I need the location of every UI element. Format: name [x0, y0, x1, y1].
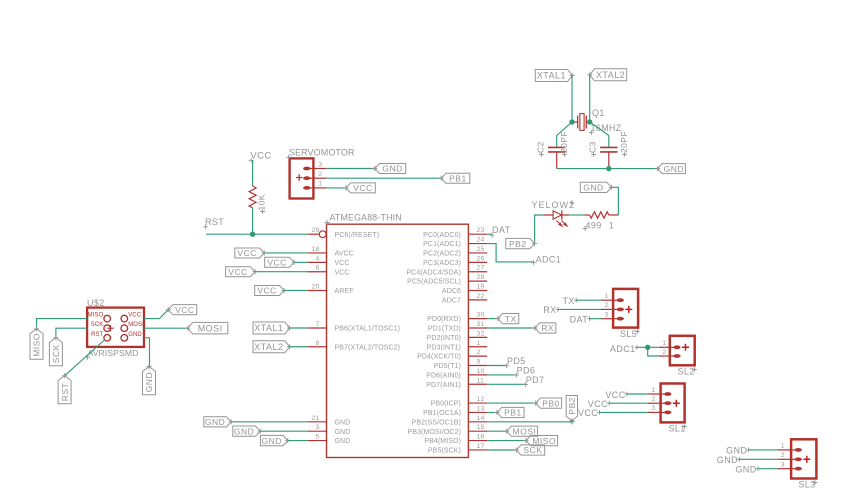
svg-text:PB4(MISO): PB4(MISO) [424, 438, 461, 445]
svg-text:RX: RX [541, 323, 554, 333]
svg-text:4: 4 [316, 255, 320, 262]
svg-text:19: 19 [477, 283, 485, 290]
SERVOMOTOR pin 1 [303, 181, 326, 190]
wire servo pin 3 to GND flag [326, 168, 374, 170]
svg-text:3: 3 [605, 312, 609, 319]
svg-text:PC3(ADC3): PC3(ADC3) [423, 260, 461, 267]
svg-text:25: 25 [477, 246, 485, 253]
svg-text:12: 12 [477, 396, 485, 403]
U1 name label ATMEGA88-THIN [324, 213, 401, 226]
SL1 pin 3 [648, 405, 672, 414]
flag SCK vertical [49, 338, 62, 366]
wire pin14 to PB2 vertical flag [487, 421, 572, 423]
svg-text:PB0: PB0 [542, 398, 560, 408]
label R1 value 499 [583, 220, 602, 231]
LED YELOW2 [544, 210, 569, 226]
wire GND to SL3 pin2 [739, 458, 777, 460]
U1 pin 11 PD7(AIN1) [426, 377, 487, 389]
svg-text:SL3: SL3 [799, 480, 816, 490]
U1 pin 29 PC6(/RESET) [308, 227, 379, 239]
svg-text:XTAL1: XTAL1 [537, 71, 566, 81]
svg-text:VCC: VCC [353, 183, 372, 193]
SERVOMOTOR pin 2 [303, 171, 326, 180]
svg-text:PD2(INT0): PD2(INT0) [427, 335, 461, 342]
wire pin16 to MISO flag [487, 440, 526, 442]
svg-text:PC5(ADC5/SCL): PC5(ADC5/SCL) [407, 279, 461, 286]
svg-text:U$2: U$2 [87, 298, 105, 308]
svg-text:GND: GND [335, 429, 351, 436]
svg-text:GND: GND [382, 164, 402, 174]
wire VCC to SL1 pin3 [600, 411, 648, 413]
svg-text:16MHZ: 16MHZ [591, 123, 622, 133]
wire U$2 MOSI to flag [144, 327, 188, 329]
connector SL3 body [791, 439, 816, 478]
wire XTAL2 flag to pin8 [290, 346, 308, 348]
label PD6 net [514, 366, 535, 378]
svg-text:PD6(AIN0): PD6(AIN0) [426, 373, 461, 380]
U1 pin 2 PD4(XCK/T0) [417, 349, 487, 361]
label GND net sl3 pin3 [735, 465, 760, 475]
SL3 pin 1 [777, 443, 802, 452]
svg-text:VCC: VCC [257, 286, 276, 296]
svg-text:AVRISPSMD: AVRISPSMD [88, 348, 139, 358]
flag PB1 [497, 407, 524, 417]
svg-text:14: 14 [477, 415, 485, 422]
svg-text:PB1: PB1 [449, 173, 467, 183]
SL5 pin 2 [601, 302, 624, 311]
svg-text:VCC: VCC [175, 305, 194, 315]
label C3 [588, 141, 598, 156]
flag MOSI [507, 426, 538, 436]
SERVOMOTOR pin 3 [303, 161, 326, 170]
flag GND vertical avrisp [143, 367, 156, 395]
label VCC net sl1 pin1 [605, 390, 629, 400]
wire ADC1 branch to SL2 pin2 [648, 347, 659, 356]
SL5 pin 1 [601, 293, 624, 302]
wire pin31 to RX flag [487, 327, 535, 329]
flag XTAL2 pin8 [253, 341, 290, 353]
svg-text:PB2: PB2 [567, 397, 577, 415]
svg-text:29: 29 [312, 227, 320, 234]
flag PB2 led [506, 238, 535, 248]
node ADC1 junction [645, 345, 650, 350]
U1 pin 27 PC4(ADC4/SDA) [406, 265, 487, 277]
svg-text:GND: GND [583, 183, 603, 193]
U1 pin 6 VCC [308, 265, 350, 277]
svg-text:MOSI: MOSI [128, 322, 144, 328]
svg-text:SL1: SL1 [669, 424, 686, 434]
svg-text:RX: RX [543, 305, 556, 315]
label YELOW2 [532, 200, 576, 210]
svg-text:VCC: VCC [578, 408, 598, 418]
svg-text:VCC: VCC [605, 390, 625, 400]
U$2 pad pair MISO/VCC [88, 313, 142, 322]
svg-text:GND: GND [335, 438, 351, 445]
U$2 pad pair SCK/MOSI [91, 322, 144, 331]
svg-text:20PF: 20PF [559, 131, 569, 153]
wire pin30 to TX flag [487, 318, 498, 320]
U1 pin 23 PC0(ADC0) [423, 227, 487, 239]
svg-text:VCC: VCC [228, 267, 247, 277]
svg-text:8: 8 [316, 340, 320, 347]
svg-text:21: 21 [312, 415, 320, 422]
svg-text:PC0(ADC0): PC0(ADC0) [423, 232, 461, 239]
U1 pin 30 PD0(RXD) [427, 312, 487, 324]
wire pin12 to PB0 flag [487, 402, 535, 404]
flag PB0 [536, 398, 562, 408]
svg-text:ADC1: ADC1 [536, 254, 562, 264]
svg-text:PC1(ADC1): PC1(ADC1) [423, 241, 461, 248]
wire U$2 GND to flag [144, 338, 150, 367]
wire pin11 PD7 net [487, 383, 525, 385]
U1 pin 22 ADC7 [442, 293, 487, 305]
svg-text:GND: GND [664, 164, 684, 174]
svg-text:YELOW2: YELOW2 [532, 200, 576, 210]
flag VCC servo [346, 183, 375, 193]
svg-text:2: 2 [477, 349, 481, 356]
label RST net [203, 217, 224, 229]
wire pin24 to ADC1 [487, 244, 533, 262]
label GND net sl3 pin2 [717, 455, 742, 465]
resistor 10K pull-up [249, 186, 256, 208]
wire U$2 VCC to flag [144, 310, 168, 319]
U1 pin 21 GND [308, 415, 351, 427]
resistor value 10K [257, 194, 267, 214]
wire servo pin 1 to VCC flag [326, 187, 346, 189]
svg-text:ATMEGA88-THIN: ATMEGA88-THIN [330, 213, 402, 223]
svg-text:1: 1 [605, 293, 609, 300]
svg-text:PD0(RXD): PD0(RXD) [427, 316, 461, 323]
svg-text:MISO: MISO [88, 313, 104, 319]
resistor R1 499 [585, 212, 619, 218]
svg-text:XTAL2: XTAL2 [254, 342, 283, 352]
svg-text:TX: TX [505, 314, 517, 324]
label 16MHZ value [589, 123, 622, 135]
svg-text:RST: RST [60, 383, 70, 402]
wire pin15 to MOSI flag [487, 430, 506, 432]
svg-text:22: 22 [477, 293, 485, 300]
label SL5 [620, 329, 640, 339]
svg-text:16: 16 [477, 434, 485, 441]
U1 pin 16 PB4(MISO) [424, 434, 487, 446]
label TX net sl5 [562, 296, 578, 306]
wire servo pin 2 to PB1 flag [326, 177, 441, 179]
connector U$2 AVRISPSMD body [87, 308, 144, 347]
svg-text:SERVOMOTOR: SERVOMOTOR [289, 147, 355, 157]
svg-text:20: 20 [312, 283, 320, 290]
svg-text:SL2: SL2 [678, 367, 695, 377]
svg-text:ADC1: ADC1 [610, 344, 636, 354]
connector SERVOMOTOR body [290, 158, 314, 198]
svg-text:RST: RST [205, 217, 224, 227]
svg-text:PB0(ICP): PB0(ICP) [431, 401, 461, 408]
svg-text:PC4(ADC4/SDA): PC4(ADC4/SDA) [406, 269, 461, 276]
svg-text:18: 18 [312, 246, 320, 253]
label C2 [536, 141, 546, 156]
svg-text:C2: C2 [536, 141, 546, 153]
svg-text:AREF: AREF [335, 288, 354, 295]
svg-text:PD1(TXD): PD1(TXD) [428, 326, 461, 333]
crystal Q1 [572, 114, 590, 131]
svg-text:RST: RST [91, 332, 104, 338]
label SL3 [799, 480, 818, 490]
U1 pin 8 PB7(XTAL2/TOSC2) [308, 340, 400, 352]
svg-text:PB2(SS/OC1B): PB2(SS/OC1B) [412, 419, 461, 426]
svg-text:SCK: SCK [51, 344, 61, 363]
svg-text:20PF: 20PF [619, 131, 629, 153]
wire VCC flag to pin4 [294, 261, 308, 263]
label PD7 net [523, 375, 544, 387]
svg-text:27: 27 [477, 265, 485, 272]
wire resistor to RST node [252, 208, 254, 234]
wire led to resistor [569, 214, 584, 216]
svg-text:32: 32 [477, 330, 485, 337]
svg-text:3: 3 [651, 405, 655, 412]
op-amp U1 ATMEGA88-THIN body [327, 224, 469, 457]
flag MOSI avrisp [188, 322, 228, 334]
connector SL2 body [670, 336, 695, 366]
SL5 pin 3 [601, 312, 624, 321]
svg-text:VCC: VCC [267, 258, 286, 268]
label AVRISPSMD [85, 348, 138, 360]
svg-text:24: 24 [477, 237, 485, 244]
flag RX [535, 323, 556, 333]
U1 pin 4 VCC [308, 255, 350, 267]
svg-text:30: 30 [477, 312, 485, 319]
wire RX to SL5 pin2 [558, 308, 601, 310]
svg-text:5: 5 [316, 434, 320, 441]
capacitor C2 [548, 147, 565, 168]
svg-text:1: 1 [318, 181, 322, 188]
label DAT net [490, 225, 511, 238]
svg-text:1: 1 [651, 387, 655, 394]
wire VCC flag to pin6 [255, 271, 308, 273]
wire XTAL2 down to crystal [589, 75, 591, 122]
label RX net sl5 [543, 305, 560, 315]
flag XTAL2 crystal [590, 69, 627, 81]
flag GND pin5 [260, 435, 287, 445]
svg-text:ADC7: ADC7 [442, 297, 461, 304]
svg-text:PD3(INT1): PD3(INT1) [427, 344, 461, 351]
U$2 pad pair RST/GND [91, 332, 142, 341]
wire XTAL1 down to crystal [571, 76, 573, 123]
flag GND led resistor [580, 182, 611, 192]
svg-text:VCC: VCC [237, 248, 256, 258]
svg-text:1: 1 [477, 340, 481, 347]
wire pin23 DAT stub [487, 233, 492, 235]
U1 pin 14 PB2(SS/OC1B) [412, 415, 488, 427]
U1 pin 31 PD1(TXD) [428, 321, 487, 333]
svg-text:PD7(AIN1): PD7(AIN1) [426, 382, 461, 389]
svg-text:GND: GND [234, 426, 254, 436]
SL2 pin 2 [659, 349, 681, 358]
tick pin14 wire end [569, 419, 574, 424]
label SL2 [678, 367, 697, 377]
svg-text:31: 31 [477, 321, 485, 328]
flag GND pin21 [204, 417, 231, 427]
wire ADC1 to SL2 pin1 [637, 346, 659, 348]
svg-text:26: 26 [477, 255, 485, 262]
U1 pin 10 PD6(AIN0) [426, 368, 487, 380]
svg-text:GND: GND [735, 465, 756, 475]
wire GND flag to resistor [612, 187, 619, 215]
svg-text:GND: GND [205, 417, 225, 427]
svg-text:GND: GND [144, 372, 154, 392]
flag XTAL1 crystal [535, 70, 572, 82]
power VCC supply above R 10K [249, 151, 272, 163]
wire VCC to SL1 pin1 [627, 393, 648, 395]
wire crystal left to C2 [557, 122, 572, 147]
label SERVOMOTOR [286, 147, 355, 160]
SL1 pin 2 [648, 396, 672, 405]
svg-text:17: 17 [477, 443, 485, 450]
wire GND flag to pin5 [288, 440, 308, 442]
svg-text:PD7: PD7 [526, 375, 545, 385]
wire pin10 PD6 net [487, 374, 516, 376]
svg-text:GND: GND [262, 436, 282, 446]
svg-text:499: 499 [586, 220, 602, 230]
svg-text:PC6(/RESET): PC6(/RESET) [335, 232, 380, 239]
svg-text:C3: C3 [588, 141, 598, 153]
svg-text:SCK: SCK [91, 322, 104, 328]
svg-text:1: 1 [609, 220, 614, 230]
svg-text:PB3(MOSI/OC2): PB3(MOSI/OC2) [408, 429, 461, 436]
svg-text:TX: TX [562, 296, 574, 306]
U1 pin 28 PC5(ADC5/SCL) [407, 274, 487, 286]
SL3 pin 3 [777, 462, 802, 471]
wire GND to SL3 pin1 [749, 449, 778, 451]
svg-text:PB5(SCK): PB5(SCK) [428, 448, 461, 455]
flag MISO [526, 436, 558, 446]
svg-text:3: 3 [316, 424, 320, 431]
U1 pin 26 PC3(ADC3) [423, 255, 487, 267]
label PD5 net [504, 356, 525, 368]
svg-text:PC2(ADC2): PC2(ADC2) [423, 251, 461, 258]
flag VCC pin18 [235, 248, 264, 258]
svg-text:10: 10 [477, 368, 485, 375]
flag VCC avrisp [168, 305, 197, 315]
U1 pin 9 PD5(T1) [434, 359, 487, 371]
U1 pin 15 PB3(MOSI/OC2) [408, 424, 488, 436]
svg-text:PB1(OC1A): PB1(OC1A) [423, 410, 461, 417]
U1 pin 25 PC2(ADC2) [423, 246, 487, 258]
connector SL5 body [613, 289, 638, 328]
node crystal left junction [569, 119, 574, 124]
svg-text:VCC: VCC [128, 313, 142, 319]
node RST junction [250, 232, 255, 237]
svg-text:PD4(XCK/T0): PD4(XCK/T0) [417, 354, 461, 361]
svg-text:23: 23 [477, 227, 485, 234]
SL2 pin 1 [659, 340, 681, 349]
wire GND flag to pin3 [260, 430, 308, 432]
svg-text:PB2: PB2 [509, 239, 527, 249]
flag VCC pin4 [265, 257, 295, 267]
wire TX to SL5 pin1 [576, 299, 601, 301]
svg-text:PD5(T1): PD5(T1) [434, 363, 461, 370]
U1 pin 12 PB0(ICP) [431, 396, 488, 408]
label SL1 [669, 424, 687, 434]
connector SL1 body [661, 384, 685, 423]
flag VCC pin6 [226, 267, 256, 277]
flag GND servo [375, 164, 406, 174]
wire pin17 to SCK flag [487, 449, 516, 451]
wire VCC flag to pin18 [264, 252, 307, 254]
U1 pin 19 ADC6 [442, 283, 487, 295]
svg-text:SCK: SCK [523, 445, 542, 455]
flag SCK [516, 445, 544, 455]
wire pin9 PD5 net [487, 365, 507, 367]
flag TX [498, 314, 519, 324]
label GND net sl3 pin1 [726, 446, 751, 456]
flag MISO vertical [30, 329, 43, 360]
svg-text:ADC6: ADC6 [442, 288, 461, 295]
svg-text:15: 15 [477, 424, 485, 431]
wire GND flag to pin21 [231, 421, 308, 423]
svg-text:1: 1 [662, 340, 666, 347]
U1 pin 5 GND [308, 434, 351, 446]
flag PB2 vertical [566, 396, 577, 424]
flag RST vertical [58, 376, 71, 404]
SL3 pin 2 [777, 452, 802, 461]
svg-text:Q1: Q1 [592, 108, 605, 118]
svg-text:6: 6 [316, 265, 320, 272]
svg-text:XTAL1: XTAL1 [254, 323, 283, 333]
label C2 value 20PF [559, 131, 569, 157]
label DAT net sl5 [570, 315, 592, 325]
node crystal right junction [587, 119, 592, 124]
U1 pin 20 AREF [308, 283, 354, 295]
svg-text:7: 7 [316, 321, 320, 328]
svg-text:PB1: PB1 [504, 408, 522, 418]
flag GND crystal [657, 164, 685, 174]
label ADC1 net sl2 [610, 344, 639, 354]
svg-text:1: 1 [781, 443, 785, 450]
svg-text:VCC: VCC [335, 269, 350, 276]
U1 pin 1 PD3(INT1) [427, 340, 488, 352]
wire XTAL1 flag to pin7 [290, 327, 308, 329]
svg-text:28: 28 [477, 274, 485, 281]
label VCC net sl1 pin3 [578, 408, 602, 418]
SL1 pin 1 [648, 387, 672, 396]
U1 pin 3 GND [308, 424, 351, 436]
U1 pin 32 PD2(INT0) [427, 330, 488, 342]
U1 pin 13 PB1(OC1A) [423, 405, 487, 417]
wire RST horizontal to pin 29 [206, 233, 308, 235]
svg-text:2: 2 [651, 396, 655, 403]
svg-text:3: 3 [318, 161, 322, 168]
wire led anode to PB2 flag [535, 215, 544, 244]
U1 pin 18 AVCC [308, 246, 354, 258]
wire DAT to SL5 pin3 [590, 318, 602, 320]
wire U$2 RST diagonal to flag [65, 340, 105, 376]
wire ground bus under capacitors [557, 168, 658, 170]
svg-text:VCC: VCC [335, 260, 350, 267]
svg-text:2: 2 [662, 349, 666, 356]
U1 pin 7 PB6(XTAL1/TOSC1) [308, 321, 400, 333]
svg-text:11: 11 [477, 377, 484, 384]
wire VCC to SL1 pin2 [609, 402, 648, 404]
flag VCC pin20 AREF [255, 286, 285, 296]
node C3 ground junction [606, 166, 611, 171]
wire VCC flag to pin20 [284, 289, 308, 291]
label C3 value 20PF [619, 131, 629, 157]
U1 pin 17 PB5(SCK) [428, 443, 487, 455]
svg-text:XTAL2: XTAL2 [596, 70, 625, 80]
svg-text:13: 13 [477, 405, 485, 412]
svg-text:GND: GND [335, 419, 351, 426]
svg-text:SL5: SL5 [620, 329, 637, 339]
wire pin13 to PB1 flag [487, 412, 497, 414]
